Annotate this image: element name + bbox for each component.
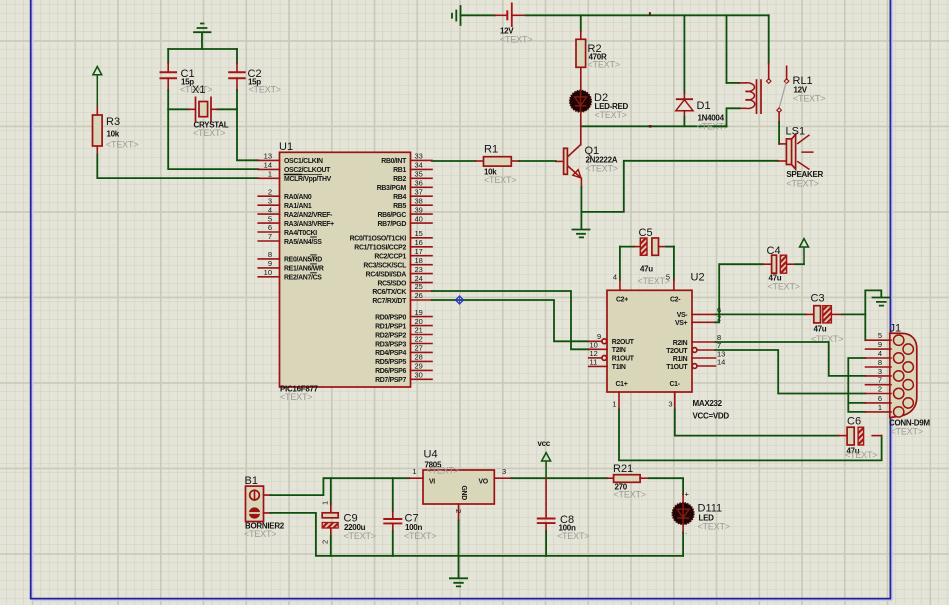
U1 pin 7 RA5/AN4/SS bbox=[258, 232, 322, 246]
svg-text:1: 1 bbox=[268, 170, 272, 179]
svg-text:VO: VO bbox=[479, 479, 489, 486]
wire R2 to D2 bbox=[580, 67, 582, 91]
svg-text:20: 20 bbox=[415, 317, 423, 326]
svg-text:15: 15 bbox=[415, 229, 423, 238]
svg-text:28: 28 bbox=[415, 353, 423, 362]
U1 pin 5 RA3/AN3/VREF+ bbox=[258, 214, 334, 228]
svg-text:T2OUT: T2OUT bbox=[666, 348, 688, 355]
svg-text:<TEXT>: <TEXT> bbox=[249, 85, 281, 95]
battery BT1 12V bbox=[500, 3, 532, 45]
svg-text:14: 14 bbox=[717, 358, 725, 367]
U1 pin 9 RE1/AN6/WR bbox=[258, 259, 324, 273]
svg-text:22: 22 bbox=[415, 335, 423, 344]
U1 pin 23 RC4/SDI/SDA bbox=[366, 265, 432, 279]
svg-text:RD2/PSP2: RD2/PSP2 bbox=[375, 332, 406, 339]
J1 hole bbox=[894, 371, 904, 381]
svg-text:U2: U2 bbox=[691, 272, 705, 284]
capacitor C2 bbox=[228, 68, 281, 95]
svg-text:10k: 10k bbox=[107, 130, 120, 139]
svg-text:C1-: C1- bbox=[670, 381, 681, 388]
svg-text:RD5/PSP5: RD5/PSP5 bbox=[375, 359, 406, 366]
svg-text:RC5/SDO: RC5/SDO bbox=[377, 280, 406, 287]
svg-text:MCLR/Vpp/THV: MCLR/Vpp/THV bbox=[284, 176, 332, 183]
terminal block B1 BORNIER2 bbox=[244, 475, 285, 539]
U1 pin 24 RC5/SDO bbox=[377, 274, 432, 288]
svg-text:16: 16 bbox=[415, 238, 423, 247]
U1 pin 2 RA0/AN0 bbox=[258, 187, 312, 201]
svg-text:OSC2/CLKOUT: OSC2/CLKOUT bbox=[284, 167, 331, 174]
svg-text:1: 1 bbox=[321, 501, 330, 505]
wire C5 right to U2 pin5 bbox=[673, 247, 675, 291]
J1 hole bbox=[903, 398, 913, 408]
junction tick bbox=[649, 12, 651, 15]
svg-text:C3: C3 bbox=[811, 293, 825, 305]
U1 pin 19 RD0/PSP0 bbox=[375, 308, 432, 322]
wire crystal right to C2 line bbox=[218, 108, 238, 110]
svg-text:RB5: RB5 bbox=[393, 203, 406, 210]
speaker LS1 bbox=[778, 122, 823, 189]
svg-text:7: 7 bbox=[268, 232, 272, 241]
svg-text:RC6/TX/CK: RC6/TX/CK bbox=[372, 289, 406, 296]
svg-text:37: 37 bbox=[415, 187, 423, 196]
U1 pin 38 RB5 bbox=[393, 196, 432, 210]
wire left vertical to pin14 bbox=[168, 109, 258, 169]
svg-text:vcc: vcc bbox=[538, 439, 551, 448]
U1 pin 4 RA2/AN2/VREF- bbox=[258, 205, 333, 219]
U2 pin 12 R1OUT bbox=[589, 349, 635, 363]
J1 pin 2 bbox=[866, 385, 892, 394]
svg-text:RB6/PGC: RB6/PGC bbox=[377, 212, 406, 219]
wire J1 pins 4-6-1 tie bbox=[848, 358, 865, 412]
U1 pin 34 RB1 bbox=[393, 161, 432, 175]
crystal X1 bbox=[189, 84, 229, 138]
wire C2 down to pin13 row bbox=[237, 90, 259, 160]
svg-text:40: 40 bbox=[415, 214, 423, 223]
U1 pin 36 RB3/PGM bbox=[377, 179, 432, 193]
svg-text:4: 4 bbox=[268, 205, 272, 214]
capacitor C3 bbox=[811, 293, 866, 345]
svg-text:<TEXT>: <TEXT> bbox=[344, 531, 376, 541]
svg-text:<TEXT>: <TEXT> bbox=[845, 450, 877, 460]
svg-text:25: 25 bbox=[415, 282, 423, 291]
svg-text:18: 18 bbox=[415, 256, 423, 265]
svg-text:RD7/PSP7: RD7/PSP7 bbox=[375, 377, 406, 384]
resistor R1 bbox=[432, 144, 556, 186]
wire ground to battery bbox=[461, 14, 508, 16]
svg-text:RB1: RB1 bbox=[393, 167, 406, 174]
U1 pin 28 RD5/PSP5 bbox=[375, 353, 432, 367]
J1 hole bbox=[894, 335, 904, 345]
U2 pin 4 C2+ bbox=[613, 273, 628, 304]
diode D1 1N4004 bbox=[676, 15, 729, 131]
J1 hole bbox=[903, 344, 913, 354]
svg-text:RE2/AN7/CS: RE2/AN7/CS bbox=[284, 275, 322, 282]
U1 pin 16 RC1/T1OSI/CCP2 bbox=[354, 238, 432, 252]
svg-text:3: 3 bbox=[878, 367, 882, 376]
svg-text:<TEXT>: <TEXT> bbox=[427, 466, 459, 476]
svg-text:<TEXT>: <TEXT> bbox=[484, 175, 516, 185]
J1 pin 6 bbox=[866, 394, 892, 403]
J1 pin 9 bbox=[866, 340, 892, 349]
svg-text:RE0/AN5/RD: RE0/AN5/RD bbox=[284, 257, 322, 264]
ground GND4 (right of C3) bbox=[873, 298, 891, 306]
svg-text:RB4: RB4 bbox=[393, 194, 406, 201]
U1 pin 37 RB4 bbox=[393, 187, 432, 201]
U1 pin 13 OSC1/CLKIN bbox=[258, 152, 323, 166]
svg-text:C6: C6 bbox=[847, 416, 861, 428]
U1 pin 39 RB6/PGC bbox=[377, 205, 432, 219]
U2 pin 5 C2- bbox=[666, 273, 681, 304]
wire emitter down bbox=[580, 187, 582, 229]
svg-text:47u: 47u bbox=[814, 325, 827, 334]
svg-text:1: 1 bbox=[412, 467, 416, 476]
svg-text:D1: D1 bbox=[697, 100, 711, 112]
svg-text:.: . bbox=[685, 527, 687, 536]
wire C5 left to U2 pin4 bbox=[619, 247, 621, 291]
U1 pin 8 RE0/AN5/RD bbox=[258, 250, 322, 264]
U1 pin 33 RB0/INT bbox=[381, 152, 432, 166]
svg-text:RC7/RX/DT: RC7/RX/DT bbox=[372, 298, 407, 305]
U1 pin 17 RC2/CCP1 bbox=[374, 247, 432, 261]
svg-text:T1IN: T1IN bbox=[612, 364, 626, 371]
svg-text:RE1/AN6/WR: RE1/AN6/WR bbox=[284, 266, 324, 273]
svg-text:2: 2 bbox=[454, 509, 463, 513]
U1 pin 26 RC7/RX/DT bbox=[372, 291, 432, 305]
J1 hole bbox=[894, 353, 904, 363]
svg-text:R1: R1 bbox=[484, 144, 498, 156]
ground GND1 (top, above crystal, inverted) bbox=[194, 24, 211, 50]
wire C1 top stub bbox=[167, 49, 169, 72]
svg-text:1: 1 bbox=[878, 403, 882, 412]
J1 hole bbox=[903, 362, 913, 372]
svg-text:C5: C5 bbox=[639, 227, 653, 239]
svg-text:13: 13 bbox=[264, 152, 272, 161]
ground GND5 (below U4) bbox=[450, 578, 467, 586]
wire collector junction right to D1/relay bbox=[581, 125, 727, 127]
transistor Q1 2N2222A bbox=[556, 126, 618, 187]
power VCC arrow (R3 top) bbox=[93, 67, 102, 108]
U1 pin 25 RC6/TX/CK bbox=[372, 282, 432, 296]
svg-text:<TEXT>: <TEXT> bbox=[891, 427, 923, 437]
svg-text:U4: U4 bbox=[424, 449, 438, 461]
U2 pin 6 VS- bbox=[677, 306, 721, 320]
svg-text:<TEXT>: <TEXT> bbox=[595, 110, 627, 120]
J1 hole bbox=[894, 388, 904, 398]
svg-text:17: 17 bbox=[415, 247, 423, 256]
svg-text:RB0/INT: RB0/INT bbox=[381, 158, 407, 165]
svg-text:RB2: RB2 bbox=[393, 176, 406, 183]
svg-text:RC2/CCP1: RC2/CCP1 bbox=[374, 254, 406, 261]
svg-text:47u: 47u bbox=[640, 265, 653, 274]
resistor R3 bbox=[93, 107, 139, 155]
U2 pin 7 T2OUT bbox=[666, 341, 721, 355]
svg-text:35: 35 bbox=[415, 170, 423, 179]
svg-text:OSC1/CLKIN: OSC1/CLKIN bbox=[284, 158, 323, 165]
U1 pin 15 RC0/T1OSO/T1CKI bbox=[350, 229, 432, 243]
svg-text:RB3/PGM: RB3/PGM bbox=[377, 185, 407, 192]
J1 pin 5 bbox=[866, 331, 892, 340]
svg-text:<TEXT>: <TEXT> bbox=[244, 529, 276, 539]
svg-text:<TEXT>: <TEXT> bbox=[698, 522, 730, 532]
svg-text:9: 9 bbox=[878, 340, 882, 349]
U1 pin 35 RB2 bbox=[393, 170, 432, 184]
capacitor C7 bbox=[383, 478, 436, 556]
svg-text:<TEXT>: <TEXT> bbox=[500, 35, 532, 45]
wire D111 to ground rail bbox=[682, 524, 684, 556]
svg-text:<TEXT>: <TEXT> bbox=[768, 282, 800, 292]
svg-text:RA1/AN1: RA1/AN1 bbox=[284, 203, 312, 210]
wire top power rail bbox=[526, 14, 769, 16]
U2 pin 13 R1IN bbox=[673, 350, 726, 363]
U1 pin 20 RD1/PSP1 bbox=[375, 317, 432, 331]
svg-text:7: 7 bbox=[878, 376, 882, 385]
relay RL1 coil bbox=[714, 15, 762, 126]
capacitor C4 bbox=[767, 245, 805, 292]
svg-text:X1: X1 bbox=[192, 84, 205, 96]
U1 pin 22 RD3/PSP3 bbox=[375, 335, 432, 349]
svg-text:R21: R21 bbox=[613, 463, 633, 475]
capacitor C5 bbox=[620, 227, 674, 286]
svg-text:4: 4 bbox=[613, 273, 617, 282]
svg-text:5: 5 bbox=[878, 331, 882, 340]
svg-text:RC3/SCK/SCL: RC3/SCK/SCL bbox=[363, 263, 406, 270]
svg-text:38: 38 bbox=[415, 196, 423, 205]
svg-text:4: 4 bbox=[878, 349, 882, 358]
ground GND2 (battery left, rotated) bbox=[452, 6, 461, 25]
wire U2 pin6 VS- to C3 bbox=[715, 313, 813, 315]
power VCC arrow (above C4) bbox=[800, 239, 809, 265]
relay RL1 switch bbox=[766, 15, 825, 122]
svg-text:VS-: VS- bbox=[677, 312, 689, 319]
J1 pin 4 bbox=[866, 349, 892, 358]
svg-text:26: 26 bbox=[415, 291, 423, 300]
svg-text:RA5/AN4/SS: RA5/AN4/SS bbox=[284, 239, 322, 246]
U1 pin 30 RD7/PSP7 bbox=[375, 371, 432, 385]
svg-text:6: 6 bbox=[268, 223, 272, 232]
svg-text:J1: J1 bbox=[890, 323, 902, 335]
wire R21 to D111 bbox=[649, 478, 683, 503]
U2 pin 9 R2OUT bbox=[589, 332, 635, 346]
svg-text:19: 19 bbox=[415, 308, 423, 317]
wire B1 minus to ground rail bbox=[271, 513, 684, 556]
J1 pin 8 bbox=[866, 358, 892, 367]
svg-text:1: 1 bbox=[612, 400, 616, 409]
svg-text:30: 30 bbox=[415, 371, 423, 380]
capacitor C1 bbox=[160, 68, 213, 95]
U2 pin 14 T1OUT bbox=[666, 358, 725, 371]
svg-text:RD1/PSP1: RD1/PSP1 bbox=[375, 323, 406, 330]
svg-text:RA4/T0CKI: RA4/T0CKI bbox=[284, 230, 317, 237]
svg-text:8: 8 bbox=[878, 358, 882, 367]
wire U1 pin25 RC6/TX to U2 T2IN bbox=[432, 291, 589, 349]
J1 hole bbox=[894, 407, 904, 417]
U1 pin 6 RA4/T0CKI bbox=[258, 223, 317, 237]
svg-text:<TEXT>: <TEXT> bbox=[614, 490, 646, 500]
wire U2 pin7 T2OUT to J1 pin2 bbox=[715, 350, 865, 394]
svg-text:<TEXT>: <TEXT> bbox=[793, 94, 825, 104]
U1 pin 40 RB7/PGD bbox=[377, 214, 432, 228]
wire B1 plus to VI rail bbox=[271, 478, 410, 495]
svg-text:VCC=VDD: VCC=VDD bbox=[693, 412, 730, 421]
svg-text:C2+: C2+ bbox=[616, 297, 628, 304]
resistor R21 bbox=[607, 463, 649, 500]
svg-text:RC1/T1OSI/CCP2: RC1/T1OSI/CCP2 bbox=[354, 245, 406, 252]
node junction diamond bbox=[456, 296, 464, 304]
U1 pin 10 RE2/AN7/CS bbox=[258, 268, 322, 282]
svg-text:29: 29 bbox=[415, 362, 423, 371]
svg-text:VS+: VS+ bbox=[675, 320, 688, 327]
wire C3 to ground / J1 pin5 bbox=[865, 290, 881, 340]
svg-text:33: 33 bbox=[415, 152, 423, 161]
svg-text:<TEXT>: <TEXT> bbox=[404, 531, 436, 541]
J1 pin 1 bbox=[866, 403, 892, 412]
wire C1 to crystal row bbox=[168, 90, 189, 109]
svg-text:21: 21 bbox=[415, 326, 423, 335]
U1 pin 18 RC3/SCK/SCL bbox=[363, 256, 432, 270]
svg-text:T1OUT: T1OUT bbox=[666, 364, 688, 371]
IC U2 MAX232 body bbox=[607, 272, 729, 421]
svg-text:T2IN: T2IN bbox=[612, 347, 626, 354]
svg-text:RC4/SDI/SDA: RC4/SDI/SDA bbox=[366, 271, 407, 278]
junction dot bbox=[649, 125, 652, 128]
svg-text:C2-: C2- bbox=[670, 297, 681, 304]
svg-text:<TEXT>: <TEXT> bbox=[557, 531, 589, 541]
svg-text:2: 2 bbox=[321, 540, 330, 544]
svg-text:RB7/PGD: RB7/PGD bbox=[377, 221, 406, 228]
svg-text:2: 2 bbox=[878, 385, 882, 394]
svg-text:RD6/PSP6: RD6/PSP6 bbox=[375, 368, 406, 375]
svg-text:GND: GND bbox=[460, 486, 467, 501]
svg-text:RD0/PSP0: RD0/PSP0 bbox=[375, 314, 406, 321]
svg-text:U1: U1 bbox=[279, 141, 293, 153]
svg-text:34: 34 bbox=[415, 161, 423, 170]
svg-text:R3: R3 bbox=[106, 116, 120, 128]
diode D2 LED-RED bbox=[570, 90, 629, 120]
capacitor C8 bbox=[537, 478, 590, 556]
svg-text:3: 3 bbox=[268, 196, 272, 205]
U1 pin 14 OSC2/CLKOUT bbox=[258, 161, 331, 175]
connector J1 CONN-D9M body bbox=[889, 323, 930, 437]
diode D111 LED bbox=[672, 490, 730, 537]
U1 pin 3 RA1/AN1 bbox=[258, 196, 312, 210]
wire U2 pin3 C1- to C6 bbox=[675, 410, 847, 436]
svg-text:R2OUT: R2OUT bbox=[612, 339, 635, 346]
svg-text:C1+: C1+ bbox=[616, 381, 628, 388]
U2 pin 3 C1- bbox=[668, 381, 680, 410]
wire D2 to collector junction bbox=[580, 112, 582, 126]
ground GND3 (below Q1) bbox=[573, 230, 590, 238]
capacitor C6 bbox=[845, 416, 877, 461]
svg-text:<TEXT>: <TEXT> bbox=[280, 392, 312, 402]
wire U1 pin26 RC7/RX to U2 R2OUT bbox=[432, 300, 589, 341]
svg-text:LS1: LS1 bbox=[786, 126, 806, 138]
U1 pin 27 RD4/PSP4 bbox=[375, 344, 432, 358]
regulator U4 7805 bbox=[409, 449, 512, 521]
svg-text:6: 6 bbox=[878, 394, 882, 403]
U2 pin 2 VS+ bbox=[675, 314, 721, 328]
wire U2 pin1 C1+ to C6 right bbox=[619, 410, 882, 461]
svg-text:5: 5 bbox=[268, 214, 272, 223]
svg-text:R1IN: R1IN bbox=[673, 356, 688, 363]
wire VO rail to R21 bbox=[512, 477, 608, 479]
svg-text:5: 5 bbox=[666, 273, 670, 282]
svg-text:23: 23 bbox=[415, 265, 423, 274]
svg-text:<TEXT>: <TEXT> bbox=[586, 164, 618, 174]
svg-text:RD3/PSP3: RD3/PSP3 bbox=[375, 341, 406, 348]
svg-text:R2IN: R2IN bbox=[673, 340, 688, 347]
svg-text:RA0/AN0: RA0/AN0 bbox=[284, 194, 312, 201]
svg-text:B1: B1 bbox=[245, 475, 258, 487]
svg-text:14: 14 bbox=[264, 161, 272, 170]
power VCC arrow (above rail) bbox=[538, 439, 551, 478]
svg-text:RC0/T1OSO/T1CKI: RC0/T1OSO/T1CKI bbox=[350, 236, 407, 243]
U2 pin 10 T2IN bbox=[589, 341, 626, 355]
svg-text:27: 27 bbox=[415, 344, 423, 353]
U2 pin 8 R2IN bbox=[673, 333, 721, 347]
J1 hole bbox=[903, 380, 913, 390]
svg-text:3: 3 bbox=[502, 467, 506, 476]
wire U2 pin2 VS+ to C4 bbox=[715, 264, 771, 322]
U1 pin 21 RD2/PSP2 bbox=[375, 326, 432, 340]
svg-text:R1OUT: R1OUT bbox=[612, 356, 635, 363]
svg-text:+: + bbox=[685, 490, 690, 499]
wire emitter tee to speaker net bbox=[581, 161, 777, 212]
IC U1 PIC16F877 body bbox=[279, 141, 411, 402]
U1 pin 29 RD6/PSP6 bbox=[375, 362, 432, 376]
U2 pin 1 C1+ bbox=[612, 381, 627, 410]
capacitor C9 bbox=[321, 478, 376, 556]
J1 pin 7 bbox=[866, 376, 892, 385]
svg-text:36: 36 bbox=[415, 179, 423, 188]
svg-text:<TEXT>: <TEXT> bbox=[786, 179, 818, 189]
svg-text:11: 11 bbox=[590, 358, 598, 367]
svg-text:39: 39 bbox=[415, 205, 423, 214]
resistor R2 bbox=[576, 39, 620, 69]
svg-text:RA3/AN3/VREF+: RA3/AN3/VREF+ bbox=[284, 221, 334, 228]
svg-text:10: 10 bbox=[264, 268, 272, 277]
J1 pin 3 bbox=[866, 367, 892, 376]
U1 pin 1 MCLR/Vpp/THV bbox=[258, 170, 331, 184]
svg-text:VI: VI bbox=[429, 479, 435, 486]
U2 pin 11 T1IN bbox=[589, 358, 626, 372]
wire R3 to MCLR pin1 bbox=[97, 155, 258, 179]
wire crystal top rail bbox=[168, 48, 237, 50]
svg-text:9: 9 bbox=[268, 259, 272, 268]
svg-text:<TEXT>: <TEXT> bbox=[106, 140, 138, 150]
wire rail to R2 bbox=[580, 15, 582, 39]
svg-text:RD4/PSP4: RD4/PSP4 bbox=[375, 350, 406, 357]
wire U2 pin8 R2IN to J1 pin3 bbox=[715, 342, 865, 376]
svg-text:8: 8 bbox=[268, 250, 272, 259]
wire U4 GND to ground bbox=[458, 520, 460, 577]
svg-text:<TEXT>: <TEXT> bbox=[588, 60, 620, 70]
svg-text:2: 2 bbox=[268, 187, 272, 196]
svg-text:<TEXT>: <TEXT> bbox=[193, 128, 225, 138]
svg-text:MAX232: MAX232 bbox=[693, 399, 723, 408]
svg-text:3: 3 bbox=[668, 400, 672, 409]
svg-text:RA2/AN2/VREF-: RA2/AN2/VREF- bbox=[284, 212, 333, 219]
wire C2 top stub bbox=[236, 49, 238, 72]
